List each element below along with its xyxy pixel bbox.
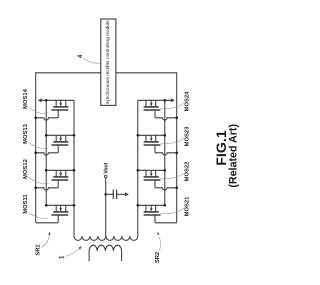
junction dot source rail MOS12 bbox=[73, 169, 76, 172]
junction dot gate rail MOS13 bbox=[34, 152, 37, 155]
wire MOS22 gate wire to rail bbox=[155, 188, 177, 190]
svg-text:SR1: SR1 bbox=[36, 244, 42, 256]
junction dot drain bus MOS11 bbox=[45, 204, 48, 207]
svg-text:MOS12: MOS12 bbox=[23, 159, 29, 179]
wire MOS14 gate lead bbox=[57, 110, 59, 118]
gate bar of MOS23 bbox=[144, 144, 161, 146]
wire MOS22 gate lead bbox=[154, 180, 156, 188]
wire MOS13 gate wire to rail bbox=[36, 153, 59, 155]
svg-text:MOS14: MOS14 bbox=[23, 88, 29, 108]
wire MOS23 gate lead bbox=[154, 145, 156, 153]
wire MOS23 source stub bbox=[145, 135, 147, 141]
body diode arrow of MOS23 bbox=[150, 135, 152, 138]
transistor MOS22 bbox=[137, 162, 191, 190]
junction dot gate rail MOS12 bbox=[34, 187, 37, 190]
channel bar of MOS24 bbox=[144, 106, 159, 108]
body diode arrow of MOS14 bbox=[60, 100, 62, 103]
svg-text:Vout: Vout bbox=[103, 162, 109, 173]
wire capacitor left lead bbox=[106, 193, 114, 195]
junction dot drain bus MOS23 bbox=[164, 134, 167, 137]
wire MOS22 source stub bbox=[145, 170, 147, 176]
leader line for MOS13 bbox=[29, 143, 49, 149]
leader line for MOS21 bbox=[160, 208, 184, 214]
wire MOS21 gate wire to rail bbox=[155, 222, 177, 224]
leader line for MOS24 bbox=[160, 103, 184, 109]
transistor MOS21 bbox=[137, 196, 191, 223]
transistor MOS11 bbox=[23, 194, 75, 223]
gate bar of MOS11 bbox=[51, 214, 68, 216]
wire MOS14 drain stub bbox=[55, 100, 57, 106]
wire MOS24 gate lead bbox=[154, 110, 156, 118]
wire MOS23 gate wire to rail bbox=[155, 153, 177, 155]
leader arrow for SR2 bbox=[159, 237, 161, 251]
channel bar of MOS21 bbox=[144, 211, 159, 213]
svg-text:synchronous rectifier controll: synchronous rectifier controlling module bbox=[105, 20, 111, 104]
transistor MOS14 bbox=[23, 88, 74, 120]
junction dot drain bus MOS24 bbox=[164, 99, 167, 102]
wire MOS11 drain stub bbox=[55, 205, 57, 211]
capacitor C (output filter) bbox=[106, 190, 129, 200]
channel bar of MOS23 bbox=[144, 141, 159, 143]
body diode arrow of MOS12 bbox=[60, 170, 62, 173]
body diode arrow of MOS11 bbox=[60, 205, 62, 208]
wire top rail right segment (module to gate bus) bbox=[116, 72, 177, 74]
svg-text:MOS13: MOS13 bbox=[23, 123, 29, 143]
channel bar of MOS14 bbox=[53, 106, 68, 108]
wire MOS22 drain-source top wire bbox=[138, 169, 165, 171]
wire MOS11 gate lead bbox=[57, 215, 59, 223]
wire MOS21 gate lead bbox=[154, 215, 156, 223]
wire MOS14 source stub bbox=[65, 100, 67, 106]
wire MOS12 drain stub bbox=[55, 170, 57, 176]
wire MOS11 gate wire to rail bbox=[36, 222, 59, 224]
channel bar of MOS12 bbox=[53, 176, 68, 178]
svg-text:MOS21: MOS21 bbox=[185, 196, 191, 216]
svg-text:MOS24: MOS24 bbox=[185, 91, 191, 111]
wire MOS24 drain stub bbox=[155, 100, 157, 106]
node Vout terminal circle bbox=[104, 175, 107, 178]
wire left drain bus bbox=[45, 100, 47, 205]
wire MOS21 source stub bbox=[145, 205, 147, 211]
wire left source rail down to winding bbox=[73, 100, 75, 234]
junction dot drain bus MOS14 bbox=[45, 99, 48, 102]
transistor MOS12 bbox=[23, 159, 75, 190]
junction dot drain bus MOS22 bbox=[164, 169, 167, 172]
wire MOS13 gate lead bbox=[57, 145, 59, 153]
junction dot gate rail MOS14 bbox=[34, 117, 37, 120]
wire MOS24 source stub bbox=[145, 100, 147, 106]
arrow terminal at capacitor bbox=[125, 192, 129, 196]
leader line for label 4 bbox=[84, 59, 101, 64]
wire MOS12 gate wire to rail bbox=[36, 188, 59, 190]
leader arrow for SR1 bbox=[42, 235, 50, 247]
svg-text:MOS23: MOS23 bbox=[185, 126, 191, 146]
gate bar of MOS21 bbox=[144, 214, 161, 216]
junction dot drain bus MOS12 bbox=[45, 169, 48, 172]
wire MOS14 gate wire to rail bbox=[36, 118, 59, 120]
wire center tap to Vout bbox=[105, 178, 107, 237]
gate bar of MOS12 bbox=[51, 179, 68, 181]
transistor MOS13 bbox=[23, 123, 75, 155]
transistor MOS24 bbox=[138, 91, 191, 120]
capacitor left plate bbox=[112, 190, 114, 200]
wire left gate rail with corner into MOS11 gate bbox=[35, 72, 37, 223]
wire MOS12 source stub bbox=[65, 170, 67, 176]
wire right gate rail with corner into MOS21 gate bbox=[176, 72, 178, 223]
wire MOS21 drain-source top wire bbox=[138, 204, 165, 206]
transistor MOS23 bbox=[137, 126, 191, 155]
transformer primary winding 1 bbox=[89, 245, 121, 261]
gate bar of MOS14 bbox=[51, 109, 68, 111]
wire capacitor right lead bbox=[117, 193, 126, 195]
arrow terminal at MOS14 drain bbox=[38, 98, 42, 102]
arrow terminal at MOS24 drain bbox=[171, 98, 175, 102]
leader line for MOS23 bbox=[160, 138, 184, 144]
wire MOS11 source stub bbox=[65, 205, 67, 211]
channel bar of MOS13 bbox=[53, 141, 68, 143]
wire MOS13 source stub bbox=[65, 135, 67, 141]
junction dot gate rail MOS23 bbox=[175, 152, 178, 155]
wire right source rail down to winding bbox=[137, 100, 139, 234]
svg-text:(Related Art): (Related Art) bbox=[228, 123, 240, 187]
svg-text:MOS22: MOS22 bbox=[185, 162, 191, 182]
wire MOS13 drain stub bbox=[55, 135, 57, 141]
gate bar of MOS22 bbox=[144, 179, 161, 181]
leader line for MOS11 bbox=[29, 213, 49, 219]
svg-text:MOS11: MOS11 bbox=[23, 194, 29, 214]
body diode arrow of MOS24 bbox=[150, 100, 152, 103]
wire MOS23 drain-source top wire bbox=[138, 134, 165, 136]
channel bar of MOS11 bbox=[53, 211, 68, 213]
wire MOS24 drain-source top wire bbox=[138, 99, 171, 101]
body diode arrow of MOS13 bbox=[60, 135, 62, 138]
wire MOS24 gate wire to rail bbox=[155, 118, 177, 120]
svg-text:SR2: SR2 bbox=[155, 252, 161, 263]
leader line for MOS14 bbox=[29, 108, 49, 114]
gate bar of MOS13 bbox=[51, 144, 68, 146]
junction dot drain bus MOS21 bbox=[164, 204, 167, 207]
leader arrow for 1 bbox=[65, 249, 78, 256]
controller module box 4 (synchronous rectifier controlling module) bbox=[101, 19, 116, 105]
wire MOS23 drain stub bbox=[155, 135, 157, 141]
transformer secondary winding SR1/SR2 (center tapped) bbox=[74, 234, 138, 241]
wire right drain bus bbox=[164, 100, 166, 205]
junction dot at capacitor tap bbox=[104, 193, 107, 196]
gate bar of MOS24 bbox=[144, 109, 161, 111]
wire MOS12 drain-source top wire bbox=[46, 169, 74, 171]
body diode arrow of MOS21 bbox=[150, 205, 152, 208]
leader line for MOS22 bbox=[160, 173, 184, 179]
junction dot gate rail MOS22 bbox=[175, 187, 178, 190]
junction dot source rail MOS22 bbox=[137, 169, 140, 172]
wire top rail left segment (gate bus to module) bbox=[36, 72, 101, 74]
junction dot source rail MOS13 bbox=[73, 134, 76, 137]
wire MOS12 gate lead bbox=[57, 180, 59, 188]
junction dot source rail MOS21 bbox=[137, 204, 140, 207]
leader line for MOS12 bbox=[29, 178, 49, 184]
junction dot source rail MOS23 bbox=[137, 134, 140, 137]
capacitor right plate bbox=[116, 190, 118, 200]
body diode arrow of MOS22 bbox=[150, 170, 152, 173]
junction dot source rail MOS11 bbox=[73, 204, 76, 207]
channel bar of MOS22 bbox=[144, 176, 159, 178]
wire MOS11 drain-source top wire bbox=[46, 204, 74, 206]
wire MOS21 drain stub bbox=[155, 205, 157, 211]
wire MOS13 drain-source top wire bbox=[46, 134, 74, 136]
wire MOS22 drain stub bbox=[155, 170, 157, 176]
junction dot gate rail MOS24 bbox=[175, 117, 178, 120]
wire MOS14 drain-source top wire bbox=[41, 99, 74, 101]
junction dot drain bus MOS13 bbox=[45, 134, 48, 137]
